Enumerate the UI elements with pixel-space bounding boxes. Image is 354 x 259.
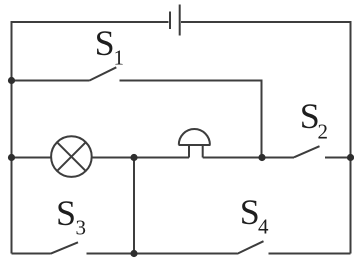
junction: middle row and right rail — [347, 154, 354, 161]
wire: S2 right contact to right rail — [325, 157, 351, 159]
switch S4 (open lever) — [237, 241, 264, 254]
svg-text:2: 2 — [318, 120, 329, 144]
junction: left rail and middle row — [8, 154, 15, 161]
wire: middle row from lamp to bell left leg — [92, 157, 189, 159]
lamp L (circle with X) — [51, 136, 92, 177]
switch S3 (open lever) — [51, 242, 79, 253]
wire: bottom row from S3 contact to S4 pivot — [87, 253, 238, 255]
wire: S1 row right segment with drop down to middle row — [120, 81, 262, 158]
wire: bottom row from left rail to S3 pivot — [12, 253, 51, 255]
junction: bottom row and vertical branch — [130, 250, 137, 257]
svg-text:3: 3 — [76, 216, 87, 240]
battery B (positive plate, long bar) — [179, 5, 181, 36]
wire: S1 row left segment from left rail to switch pivot — [12, 80, 90, 82]
switch S2 (open lever) — [294, 146, 320, 157]
svg-text:S: S — [240, 192, 260, 232]
battery B (negative plate, short bar) — [169, 12, 171, 30]
wire: middle row from bell right leg to S2 pivot — [203, 157, 294, 159]
wire: middle row from left rail to lamp — [12, 157, 52, 159]
svg-text:S: S — [95, 23, 115, 63]
wire: left rail with top-left wire to battery negative terminal — [12, 22, 169, 254]
electric bell (dome with base and legs) — [179, 129, 211, 157]
svg-text:1: 1 — [114, 46, 125, 70]
junction: middle row and S1 branch drop — [258, 154, 265, 161]
wire: top wire from battery positive to top-right corner and right rail — [181, 22, 351, 254]
junction: left rail and S1 row — [8, 77, 15, 84]
svg-text:S: S — [56, 193, 76, 233]
wire: vertical branch from middle row junction down to bottom row — [133, 158, 135, 254]
switch S1 (open lever) — [90, 67, 117, 80]
wire: bottom row from S4 contact to right rail — [269, 253, 351, 255]
svg-text:4: 4 — [258, 215, 269, 239]
junction: middle row and vertical branch — [130, 154, 137, 161]
